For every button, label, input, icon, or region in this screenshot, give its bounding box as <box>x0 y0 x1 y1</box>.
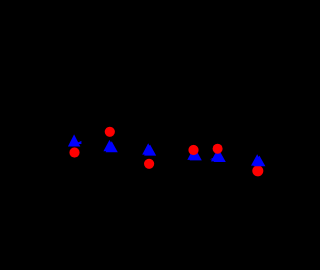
cluster 6 : blue triangle marker (on top) <box>251 154 263 165</box>
cluster 5 : blue triangle marker second <box>214 151 226 162</box>
cluster 5 : red circle marker (on top) <box>213 144 223 154</box>
cluster 4 : red circle marker (on top) <box>188 145 198 155</box>
cluster 5 : blue triangle marker <box>211 150 223 161</box>
cluster 2 : blue triangle marker <box>103 140 115 151</box>
cluster 2 : red circle marker (top) <box>105 127 115 137</box>
cluster 3 : blue triangle marker (top) <box>142 143 154 154</box>
cluster 6 : blue triangle marker second <box>253 156 265 167</box>
cluster 2 : blue triangle marker second <box>106 141 118 152</box>
cluster 3 : blue triangle marker second <box>144 145 156 156</box>
cluster 6 : blue triangle overlap wedge left <box>252 161 258 164</box>
cluster 5 : blue triangle overlap wedge left <box>210 157 215 159</box>
cluster 1 : red circle marker (bottom) <box>69 147 79 157</box>
cluster 1 : blue triangle marker overlap wedge <box>75 141 82 144</box>
cluster 4 : blue triangle marker <box>187 148 199 160</box>
cluster 6 : red circle marker (behind) <box>252 165 263 176</box>
cluster 1 : blue triangle marker (top) <box>68 134 80 146</box>
cluster 3 : red circle marker (bottom) <box>144 159 154 169</box>
cluster 4 : blue triangle marker second <box>190 149 202 160</box>
